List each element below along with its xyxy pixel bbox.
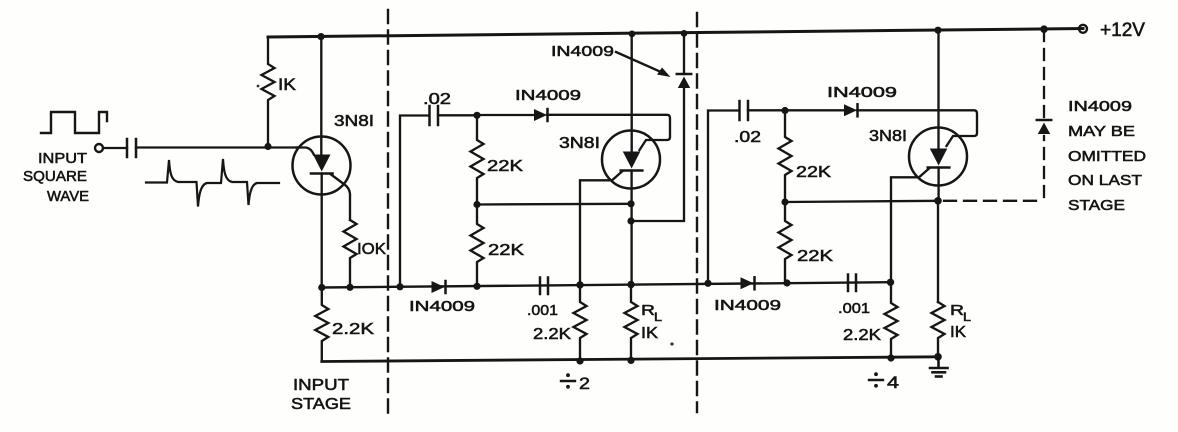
svg-text:L: L [963, 310, 971, 324]
transistor Q1 emitter diagonal [331, 175, 350, 221]
resistor 22K upper stage2 [471, 115, 484, 204]
capacitor .001 stage3 [848, 275, 856, 292]
resistor 22K upper stage3 [779, 111, 792, 203]
svg-text:.02: .02 [423, 91, 451, 108]
svg-text:SQUARE: SQUARE [23, 168, 87, 185]
wire rail to 1K top [268, 36, 321, 39]
wire Q2 cathode down [630, 171, 632, 285]
node 22K top junction stage2 [473, 112, 480, 119]
node rail stage3 collector junction [934, 27, 941, 34]
resistor 2.2K stage2 [574, 285, 587, 361]
svg-text:IN4009: IN4009 [551, 43, 614, 60]
wire Q3 anode from rail [937, 30, 939, 149]
svg-text:3N8I: 3N8I [559, 135, 600, 152]
svg-text:.001: .001 [527, 302, 558, 319]
transistor Q3 gate diagonal [891, 169, 929, 283]
node bus stage3-left junction [704, 280, 711, 287]
svg-text:22K: 22K [797, 248, 833, 265]
node 22K bottom-bus junction stage2 [473, 283, 480, 290]
transistor Q2 triangle [623, 152, 641, 169]
node 2.2K-rail junction stage3 [887, 354, 894, 361]
svg-text:ON LAST: ON LAST [1068, 172, 1142, 189]
svg-text:IK: IK [641, 325, 658, 342]
node 22K top junction stage3 [781, 107, 788, 114]
wire diode to rail [683, 34, 685, 75]
svg-text:INPUT: INPUT [293, 377, 349, 394]
wire cap to 22K top [438, 114, 477, 116]
node rail dashed branch junction [1040, 25, 1048, 33]
resistor 22K lower stage3 [779, 202, 792, 283]
capacitor C-in [127, 139, 136, 157]
wire +12V top rail [268, 29, 1083, 38]
svg-text:STAGE: STAGE [1068, 197, 1125, 214]
resistor R 1K input [262, 37, 275, 147]
diode 1N4009 optional (dashed branch) [1038, 123, 1050, 135]
svg-text:2: 2 [579, 374, 590, 393]
wire Q2 to top diode [631, 88, 684, 221]
svg-text:OMITTED: OMITTED [1068, 148, 1146, 165]
diode 1N4009 to rail (vertical) [678, 77, 690, 89]
node rail diode branch junction [681, 30, 688, 37]
arrow to diode [616, 52, 662, 73]
node cathode-diodewire junction stage2 [627, 217, 634, 224]
input terminal [95, 144, 103, 152]
wire 22K-top to diode [477, 114, 534, 116]
resistor 2.2K input stage [315, 288, 328, 362]
node rail-1K junction [317, 33, 324, 40]
node RL-rail junction stage3 [934, 353, 942, 361]
resistor 22K lower stage2 [471, 205, 484, 287]
wire 22K-top to diode stage3 [785, 109, 844, 111]
transistor Q3 triangle [930, 149, 948, 166]
svg-text:L: L [654, 310, 662, 324]
transistor Q3 bar [928, 166, 950, 169]
dashed stage separator 2 [696, 13, 698, 412]
transistor Q2 gate diagonal [580, 172, 622, 286]
svg-text:+12V: +12V [1100, 20, 1145, 41]
wire stage3 left vertical (.02 feed) [708, 111, 739, 284]
transistor Q1 triangle [313, 155, 331, 172]
wire trigger bus [322, 282, 890, 287]
svg-text:2.2K: 2.2K [332, 321, 374, 338]
svg-text:IN4009: IN4009 [1068, 98, 1132, 115]
wire 22K mid to Q2 cathode link [477, 203, 631, 206]
svg-text:IOK: IOK [357, 241, 386, 258]
node base junction (1K bottom) [264, 143, 271, 150]
wire 22K mid to Q3 cathode link [785, 201, 938, 202]
svg-text:22K: 22K [488, 242, 524, 259]
diode 1N4009 stage2 top [534, 109, 547, 121]
svg-text:3N8I: 3N8I [869, 128, 907, 145]
diode 1N4009 stage2 bus [432, 281, 445, 293]
svg-text:INPUT: INPUT [38, 150, 87, 167]
wire Q3 cathode down [937, 168, 939, 202]
svg-text:2.2K: 2.2K [533, 326, 571, 343]
node 2.2K-rail junction stage2 [576, 357, 583, 364]
svg-text:22K: 22K [487, 158, 523, 175]
svg-text:IK: IK [950, 324, 966, 341]
scan speck below stage2 [670, 342, 673, 345]
node .001-gate-2.2K junction [576, 281, 583, 288]
node .001-gate-2.2K junction stage3 [887, 279, 894, 286]
wire input terminal to cap [103, 147, 127, 149]
svg-text:.001: .001 [838, 300, 870, 317]
node rail stage2 collector junction [629, 31, 636, 38]
resistor 2.2K stage3 [885, 282, 898, 358]
transistor Q1 3N81 input stage: circle [293, 137, 351, 195]
transistor Q2 bar [621, 169, 643, 172]
node 10K-bus junction [346, 284, 353, 291]
wire Q3 cathode to RL [937, 201, 939, 302]
wire diode wrap to Q2 [547, 115, 670, 150]
ground symbol [930, 357, 948, 377]
wire cap to 22K top stage3 [748, 109, 785, 111]
node RL-rail junction stage2 [627, 357, 634, 364]
resistor RL 1K stage2 [625, 285, 638, 361]
node link-cathode junction stage3 [934, 197, 942, 205]
svg-text:22K: 22K [796, 164, 831, 181]
svg-text:IN4009: IN4009 [714, 297, 781, 314]
node 22K mid junction stage2 [473, 201, 480, 208]
wire Q1 cathode down to bus [321, 174, 323, 288]
svg-text:IN4009: IN4009 [827, 84, 897, 101]
dashed wire to optional diode [944, 200, 1041, 202]
svg-text:MAY BE: MAY BE [1068, 123, 1135, 140]
svg-text:IN4009: IN4009 [515, 87, 581, 104]
label divide by 4 [869, 372, 899, 392]
dashed wire diode to rail [1043, 32, 1045, 117]
wire Q2 anode from rail [631, 34, 633, 152]
svg-text:IN4009: IN4009 [409, 298, 475, 315]
diode 1N4009 stage3 top [844, 104, 857, 116]
resistor 10K [344, 220, 357, 287]
square wave input symbol [41, 112, 107, 133]
svg-text:WAVE: WAVE [47, 188, 89, 205]
transistor Q3 3N81: circle [909, 128, 967, 186]
transistor Q1 base entry curve [296, 148, 314, 155]
label divide by 2 [561, 373, 590, 393]
capacitor .02 stage3 [740, 101, 749, 120]
resistor RL 1K stage3 [932, 302, 945, 357]
+12V terminal [1079, 25, 1087, 33]
node 22K mid junction stage3 [781, 198, 788, 205]
transistor Q2 3N81: circle [602, 131, 660, 189]
node bus stage2-left junction [396, 283, 403, 290]
node Q1 cathode-bus junction [318, 284, 325, 291]
capacitor .02 stage2 [430, 106, 439, 125]
svg-text:4: 4 [887, 373, 899, 392]
transistor Q1 bar [311, 172, 333, 175]
svg-text:IK: IK [278, 75, 297, 94]
node bus-cathode junction stage2 [627, 281, 634, 288]
svg-text:3N8I: 3N8I [334, 113, 374, 130]
svg-text:2.2K: 2.2K [843, 327, 881, 344]
spike waveform (differentiated square wave) [146, 159, 279, 207]
dashed stage separator 1 [387, 10, 389, 415]
svg-text:STAGE: STAGE [291, 396, 351, 413]
wire stage2 left vertical (.02 feed) [400, 116, 429, 287]
label IN4009 MAY BE OMITTED ON LAST STAGE [1068, 98, 1146, 214]
wire diode wrap to Q3 [857, 110, 977, 146]
diode 1N4009 stage3 bus [741, 277, 754, 289]
svg-text:.02: .02 [734, 129, 761, 146]
wire bottom ground rail [322, 357, 938, 362]
node link-cathode junction stage2 [627, 200, 634, 207]
scan speck near 1K [257, 85, 260, 88]
wire Q1 collector from rail [320, 37, 322, 155]
wire cap to base junction [136, 146, 298, 148]
capacitor .001 stage2 [540, 278, 548, 295]
node 22K bottom-bus junction stage3 [783, 279, 790, 286]
